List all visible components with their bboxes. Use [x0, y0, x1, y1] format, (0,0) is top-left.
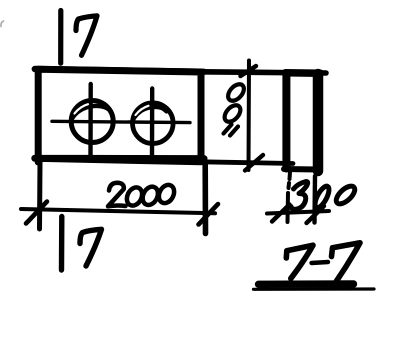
stray mark top-left edge [1, 21, 4, 27]
top extension line to section view [201, 72, 326, 73]
dimension line 1100 (vertical) [247, 61, 252, 171]
hole circle 1 [71, 101, 113, 143]
section label 7 (bottom) [80, 229, 102, 266]
slab outline (plan view) [35, 69, 204, 162]
bottom extension line to section view [201, 162, 293, 164]
tick right (2000) [199, 204, 219, 225]
hole circle 1 inner arc [72, 106, 110, 120]
tick bottom (1100) [245, 155, 263, 171]
hole circle 2 inner arc [133, 107, 167, 121]
extension line right (300) [312, 176, 317, 223]
section mark line (top) [58, 11, 63, 64]
extension line left (300) [288, 172, 291, 222]
tick left (2000) [26, 202, 47, 224]
extension line left (2000) [37, 162, 43, 229]
vertical centerline hole 1 [88, 84, 93, 157]
section mark line (bottom) [59, 217, 65, 271]
hole circle 2 [133, 103, 174, 144]
section view left edge [282, 74, 290, 169]
dimension text 1100 (rotated) [222, 81, 247, 135]
section view right edge [313, 74, 324, 171]
section view top edge [286, 69, 321, 77]
section label 7 (top) [76, 16, 97, 56]
section title hyphen [312, 262, 329, 263]
title underline thin [254, 287, 375, 290]
section title 7 (second) [332, 243, 361, 281]
dimension line 2000 [21, 209, 215, 213]
tick right (300) [307, 206, 325, 223]
section title 7 (first) [286, 245, 313, 278]
dimension line 300 [267, 211, 329, 214]
vertical centerline hole 2 [150, 89, 155, 158]
horizontal centerline through holes [52, 121, 190, 122]
tick left (300) [272, 205, 290, 222]
section view bottom edge [284, 166, 318, 173]
title underline thick [259, 280, 354, 288]
extension line right (2000) [202, 162, 208, 234]
tick top (1100) [241, 66, 257, 76]
dimension text 2000 [108, 182, 177, 208]
dimension text 300 [291, 182, 358, 210]
